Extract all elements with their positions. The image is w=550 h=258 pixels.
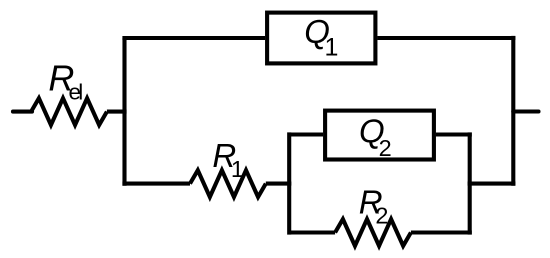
svg-text:Q1: Q1 <box>304 13 338 62</box>
wire: bottom branch <box>122 182 190 186</box>
resistor R2 <box>335 219 411 246</box>
node: left junction bus <box>122 38 126 186</box>
resistor R1 <box>190 170 266 197</box>
wire: Q2 left lead <box>289 132 323 136</box>
wire: top branch left <box>122 36 265 40</box>
constant phase element Q2 (box) <box>325 111 434 160</box>
right terminal wire <box>513 109 538 113</box>
wire from R_el to left node <box>107 110 127 114</box>
svg-text:R2: R2 <box>359 184 389 229</box>
constant phase element Q1 (box) <box>267 13 375 64</box>
wire: right bus <box>511 36 515 186</box>
wire: Q2 right lead <box>436 132 472 136</box>
resistor R_el <box>31 98 107 125</box>
wire from R1 to parallel block <box>266 182 292 186</box>
node: parallel block left bus <box>287 132 291 234</box>
svg-text:Q2: Q2 <box>359 113 392 162</box>
node: parallel block right bus <box>468 132 472 234</box>
wire: top branch right <box>378 36 516 40</box>
wire: R2 left lead <box>289 230 335 234</box>
wire: R2 right lead <box>411 230 472 234</box>
left terminal wire <box>13 110 32 114</box>
svg-text:Rel: Rel <box>48 57 83 104</box>
wire: parallel block to right bus <box>468 182 516 186</box>
svg-text:R1: R1 <box>212 137 244 182</box>
